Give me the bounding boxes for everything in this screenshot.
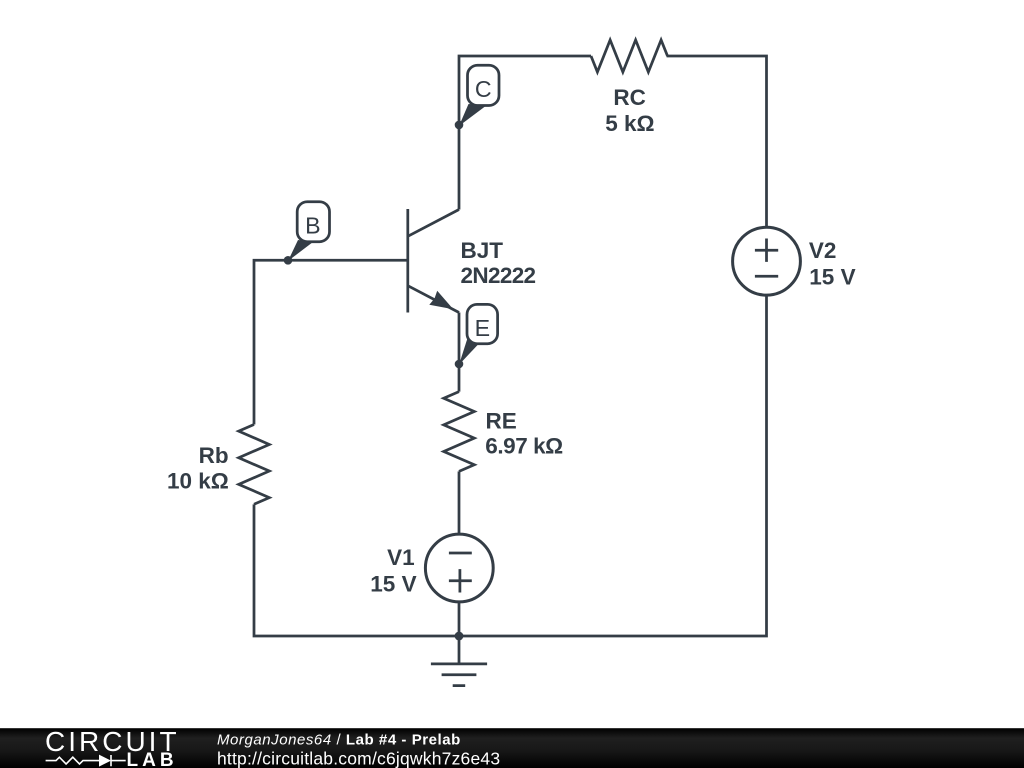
svg-text:V2: V2 bbox=[809, 238, 837, 263]
svg-text:MorganJones64 / Lab #4 - Prela: MorganJones64 / Lab #4 - Prelab bbox=[217, 731, 461, 748]
svg-text:Rb: Rb bbox=[199, 443, 229, 468]
svg-text:15 V: 15 V bbox=[370, 572, 416, 597]
svg-text:6.97 kΩ: 6.97 kΩ bbox=[485, 434, 563, 459]
transistor Q1 emitter arrow bbox=[429, 291, 453, 309]
node dot E bbox=[455, 360, 464, 369]
svg-text:BJT: BJT bbox=[461, 238, 504, 263]
wire RC to V2 top bbox=[667, 56, 767, 227]
wire RE to V1 bbox=[458, 471, 461, 533]
transistor Q1 emitter diagonal bbox=[408, 286, 459, 313]
junction dot at ground node bbox=[455, 632, 464, 641]
svg-text:10 kΩ: 10 kΩ bbox=[167, 469, 229, 494]
ground bbox=[431, 636, 487, 686]
svg-text:C: C bbox=[475, 76, 492, 102]
transistor Q1 bar bbox=[406, 209, 409, 313]
svg-text:E: E bbox=[475, 315, 490, 341]
svg-text:5 kΩ: 5 kΩ bbox=[605, 111, 654, 136]
wire V1 to bottom bbox=[458, 602, 461, 636]
svg-text:2N2222: 2N2222 bbox=[461, 263, 536, 288]
svg-text:LAB: LAB bbox=[127, 750, 178, 768]
transistor Q1 collector diagonal bbox=[408, 210, 459, 237]
svg-text:RE: RE bbox=[486, 409, 517, 434]
node label C box bbox=[468, 65, 500, 105]
node label B box bbox=[297, 202, 329, 242]
svg-text:RC: RC bbox=[613, 85, 646, 110]
source V2 polarity marks bbox=[755, 239, 778, 277]
node dot C bbox=[455, 121, 464, 130]
svg-text:http://circuitlab.com/c6jqwkh7: http://circuitlab.com/c6jqwkh7z6e43 bbox=[217, 748, 500, 768]
logo squiggle wire bbox=[46, 755, 126, 766]
source V1 polarity marks bbox=[449, 553, 472, 593]
node label E box bbox=[467, 304, 498, 343]
source V2 body bbox=[733, 227, 801, 295]
resistor RC bbox=[591, 40, 668, 72]
svg-text:V1: V1 bbox=[387, 545, 415, 570]
node label C tail bbox=[459, 104, 487, 126]
wire left upper and base wire bbox=[254, 260, 408, 424]
svg-text:15 V: 15 V bbox=[809, 264, 855, 289]
resistor Rb bbox=[239, 425, 270, 505]
svg-text:B: B bbox=[305, 213, 320, 239]
node label E tail bbox=[459, 339, 479, 365]
wire emitter to RE bbox=[458, 313, 461, 392]
node label B tail bbox=[288, 240, 313, 261]
source V1 body bbox=[425, 534, 493, 602]
node dot B bbox=[284, 256, 293, 265]
logo diode bbox=[99, 755, 111, 767]
resistor RE bbox=[444, 392, 475, 472]
wire collector to top-left corner and top wire bbox=[459, 56, 591, 210]
wire V2 bottom, right side, bottom wire, left lower bbox=[254, 295, 767, 636]
footer bar bbox=[0, 728, 1024, 768]
